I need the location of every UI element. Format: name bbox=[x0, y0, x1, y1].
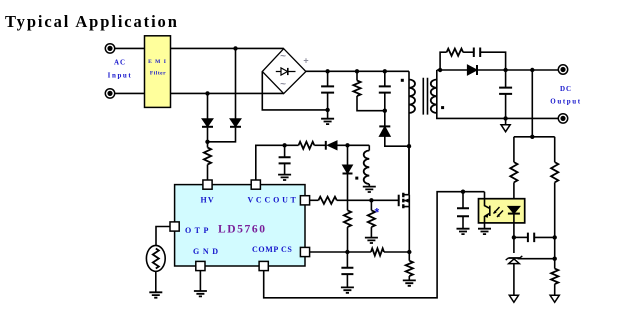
snubber resistor bbox=[353, 81, 360, 97]
CS filter capacitor bbox=[341, 268, 353, 274]
bridge plus mark bbox=[303, 56, 308, 66]
wire sense diode down bbox=[347, 174, 349, 210]
wire D2 cathode to HV node bbox=[208, 128, 236, 142]
wire VCC cap bottom bbox=[284, 163, 286, 174]
svg-text:O T P: O T P bbox=[185, 226, 209, 235]
wire bottom AC to diode D1 bbox=[207, 93, 209, 118]
wire aux node to winding bbox=[368, 145, 370, 150]
wire feedback cap bottom bbox=[462, 216, 464, 229]
ground thermistor bbox=[149, 292, 162, 297]
svg-text:DC: DC bbox=[560, 85, 572, 93]
junction divider riser top bbox=[530, 68, 534, 72]
wire output ground stub bbox=[505, 118, 507, 124]
junction rail snubber C bbox=[383, 69, 387, 73]
wire OUT pin lead bbox=[310, 199, 319, 201]
wire CS cap bottom bbox=[346, 274, 348, 287]
junction divider split bbox=[530, 135, 534, 139]
wire positive rail bbox=[306, 70, 409, 72]
shunt regulator TL431 bbox=[506, 256, 523, 264]
feedback capacitor bbox=[528, 233, 534, 243]
label Filter bbox=[150, 71, 166, 77]
wire sense resistor to CS bbox=[347, 227, 349, 252]
wire secondary stem bbox=[436, 70, 438, 113]
transformer primary winding bbox=[409, 80, 415, 114]
wire feedback cap top bbox=[462, 192, 464, 209]
EMI filter block bbox=[145, 36, 171, 108]
wire sec snubber mid bbox=[463, 51, 473, 53]
wire AC line top EMI to bridge bbox=[171, 47, 284, 49]
junction gate pulldown bbox=[369, 198, 373, 202]
pin HV bbox=[203, 180, 212, 189]
wire VCC pin up bbox=[256, 145, 299, 180]
wire aux node down bbox=[347, 145, 349, 165]
thermistor body circle bbox=[146, 245, 165, 271]
wire rail to snubber C bbox=[384, 71, 386, 86]
wire divider branch upper bbox=[554, 137, 556, 162]
transformer secondary winding bbox=[431, 80, 437, 114]
svg-text:V C C O U T: V C C O U T bbox=[248, 196, 297, 205]
svg-text:Output: Output bbox=[550, 98, 581, 106]
svg-text:HV: HV bbox=[201, 196, 215, 205]
wire VCC resistor to diode bbox=[314, 144, 326, 146]
divider upper resistor bbox=[551, 162, 558, 182]
junction TL431 ref bbox=[553, 257, 557, 261]
label Input bbox=[108, 72, 133, 80]
wire divider split bar bbox=[514, 136, 555, 138]
optocoupler LED bbox=[508, 206, 520, 213]
wire divider to ground bbox=[554, 284, 556, 295]
bridge rectifier BD1 body bbox=[262, 49, 306, 94]
svg-text:~: ~ bbox=[280, 51, 286, 62]
wire snubber diode to drain node bbox=[385, 136, 409, 146]
junction top AC line bbox=[233, 46, 237, 50]
wire VCC cap top bbox=[284, 145, 286, 157]
bulk capacitor bbox=[321, 86, 334, 92]
wire LED branch upper bbox=[513, 137, 515, 162]
AC input terminal bottom bbox=[105, 89, 114, 98]
junction aux node bbox=[345, 143, 349, 147]
wire divider riser bbox=[531, 70, 533, 137]
junction fb cap left bbox=[512, 235, 516, 239]
aux polarity dot bbox=[355, 177, 358, 180]
bridge tilde mark top bbox=[280, 51, 286, 62]
primary polarity dot bbox=[401, 79, 404, 82]
wire D1 cathode down bbox=[207, 128, 209, 148]
wire rail to snubber R bbox=[356, 71, 358, 80]
wire TL431 ref bbox=[518, 258, 555, 260]
svg-text:Input: Input bbox=[108, 72, 133, 80]
output capacitor bbox=[499, 88, 512, 94]
pin OUT bbox=[300, 196, 309, 205]
gate drive resistor bbox=[318, 197, 336, 204]
pin label COMP CS bbox=[252, 245, 292, 254]
svg-text:LD5760: LD5760 bbox=[218, 224, 267, 236]
junction bulk cap negative bbox=[325, 108, 329, 112]
ground bulk cap bbox=[321, 119, 334, 124]
wire resistor to HV pin bbox=[207, 165, 209, 181]
bridge tilde mark bottom bbox=[280, 79, 286, 90]
svg-text:Typical Application: Typical Application bbox=[5, 12, 179, 31]
VCC capacitor bbox=[279, 157, 291, 163]
startup diode D1 bbox=[202, 119, 213, 127]
pin VCC bbox=[251, 180, 260, 189]
optocoupler U2 body bbox=[479, 199, 525, 223]
svg-text:E M I: E M I bbox=[148, 59, 167, 65]
wire LED cathode bbox=[513, 214, 515, 253]
wire primary stem bbox=[408, 71, 410, 194]
wire pulldown to ground bbox=[370, 227, 372, 238]
wire AC line bottom EMI to bridge bbox=[171, 92, 284, 94]
junction output cap top bbox=[503, 68, 507, 72]
wire fb cap left lead bbox=[514, 236, 527, 238]
line sense resistor bbox=[344, 210, 351, 227]
wire snubber C to diode bbox=[384, 93, 386, 127]
wire LED branch to opto bbox=[513, 182, 515, 206]
title text 'Typical Application' bbox=[5, 12, 179, 31]
bridge rectifier inner diode bbox=[276, 68, 296, 75]
wire CS resistor to source bbox=[384, 251, 409, 253]
VCC diode bbox=[326, 141, 337, 150]
power MOSFET Q1 bbox=[399, 193, 410, 208]
ground VCC cap bbox=[278, 175, 291, 180]
label DC bbox=[560, 85, 572, 93]
auxiliary winding bbox=[364, 151, 370, 185]
TL431 ground triangle bbox=[509, 295, 518, 302]
ground aux winding bbox=[363, 187, 376, 192]
junction bottom AC line bbox=[205, 91, 209, 95]
optocoupler light arrows bbox=[494, 207, 504, 217]
wire aux winding to ground bbox=[368, 184, 370, 187]
junction drain node bbox=[407, 144, 411, 148]
secondary polarity dot bbox=[441, 106, 444, 109]
junction CS filter bbox=[345, 250, 349, 254]
AC input terminal top bbox=[105, 44, 114, 53]
wire gate line bbox=[337, 199, 399, 201]
pin label GND bbox=[193, 247, 219, 256]
junction rail snubber R bbox=[355, 69, 359, 73]
pin CS bbox=[300, 247, 309, 256]
pin OTP bbox=[170, 222, 179, 231]
snubber diode bbox=[379, 126, 390, 136]
junction output cap bottom bbox=[503, 116, 507, 120]
wire sec snubber up bbox=[440, 52, 447, 70]
wire sec snubber return bbox=[480, 52, 505, 70]
ground gate pulldown bbox=[365, 238, 378, 243]
snubber capacitor bbox=[379, 86, 391, 92]
wire secondary bottom rail bbox=[437, 113, 559, 118]
wire top AC to diode D2 bbox=[235, 48, 237, 118]
LED series resistor bbox=[510, 162, 517, 182]
wire TL431 anode bbox=[513, 264, 515, 296]
pin label VCC OUT bbox=[248, 196, 297, 205]
wire snubber R to join bbox=[357, 96, 385, 111]
junction VCC cap bbox=[282, 143, 286, 147]
feedback filter capacitor bbox=[457, 208, 469, 216]
divider lower resistor bbox=[551, 269, 558, 285]
ground opto emitter bbox=[478, 229, 491, 234]
wire feedback run bbox=[264, 192, 485, 298]
svg-text:COMP CS: COMP CS bbox=[252, 245, 292, 254]
line sense diode bbox=[343, 165, 353, 174]
label Output bbox=[550, 98, 581, 106]
wire bridge negative output bbox=[262, 72, 327, 110]
wire sense resistor to ground bbox=[408, 276, 410, 280]
DC output terminal plus bbox=[558, 65, 567, 74]
junction source CS bbox=[407, 250, 411, 254]
asterisk mark bbox=[375, 206, 380, 220]
junction rail bulk cap bbox=[325, 69, 329, 73]
startup diode D2 bbox=[230, 119, 241, 127]
secondary snubber resistor bbox=[447, 49, 463, 56]
svg-text:Filter: Filter bbox=[150, 71, 166, 77]
ground CS filter bbox=[341, 287, 354, 292]
CS filter resistor bbox=[371, 248, 384, 255]
wire AC line top terminal to EMI bbox=[115, 47, 145, 49]
wire VCC diode to aux node bbox=[337, 144, 369, 146]
junction snubber RC bbox=[383, 109, 387, 113]
secondary snubber capacitor bbox=[474, 47, 480, 57]
HV series resistor bbox=[204, 148, 211, 165]
junction feedback cap bbox=[461, 190, 465, 194]
VCC series resistor bbox=[299, 142, 315, 149]
pin GND bbox=[196, 261, 205, 270]
output rectifier diode bbox=[467, 65, 477, 75]
wire rail to bulk cap bbox=[327, 71, 329, 86]
svg-text:G N D: G N D bbox=[193, 247, 219, 256]
svg-text:*: * bbox=[375, 206, 380, 220]
wire bulk cap to ground bbox=[327, 93, 329, 119]
svg-text:AC: AC bbox=[114, 59, 126, 67]
controller IC LD5760 body bbox=[175, 185, 305, 266]
current sense resistor bbox=[406, 261, 413, 276]
transformer core bbox=[423, 78, 427, 115]
wire thermistor to ground bbox=[155, 271, 157, 292]
wire output cap top bbox=[505, 70, 507, 88]
ground IC GND bbox=[194, 291, 207, 296]
wire OTP to thermistor bbox=[156, 227, 170, 246]
wire output cap bottom bbox=[505, 94, 507, 119]
divider ground triangle bbox=[550, 295, 559, 302]
label E M I bbox=[148, 59, 167, 65]
wire AC line bottom terminal to EMI bbox=[115, 92, 145, 94]
wire pulldown top bbox=[370, 200, 372, 210]
wire source down bbox=[408, 207, 410, 261]
wire GND pin down bbox=[199, 271, 201, 291]
gate pulldown resistor bbox=[368, 210, 375, 227]
junction secondary snubber tap bbox=[438, 68, 442, 72]
optocoupler phototransistor bbox=[485, 192, 490, 229]
IC label LD5760 bbox=[218, 224, 267, 236]
wire divider branch mid bbox=[554, 182, 556, 268]
junction HV node bbox=[205, 140, 209, 144]
junction fb cap right bbox=[553, 235, 557, 239]
wire CS pin line bbox=[310, 251, 371, 253]
svg-text:~: ~ bbox=[280, 79, 286, 90]
wire secondary top rail bbox=[437, 69, 559, 71]
output ground triangle bbox=[501, 125, 510, 132]
wire drain to transformer bbox=[408, 146, 410, 195]
pin COMP bbox=[259, 261, 268, 270]
DC output terminal minus bbox=[558, 114, 567, 123]
wire CS cap top bbox=[346, 252, 348, 268]
label AC bbox=[114, 59, 126, 67]
pin label OTP bbox=[185, 226, 209, 235]
thermistor element bbox=[153, 249, 159, 269]
ground feedback cap bbox=[457, 229, 470, 234]
ground current sense bbox=[403, 280, 416, 285]
wire fb cap right lead bbox=[534, 236, 555, 238]
svg-text:+: + bbox=[303, 56, 308, 66]
pin label HV bbox=[201, 196, 215, 205]
